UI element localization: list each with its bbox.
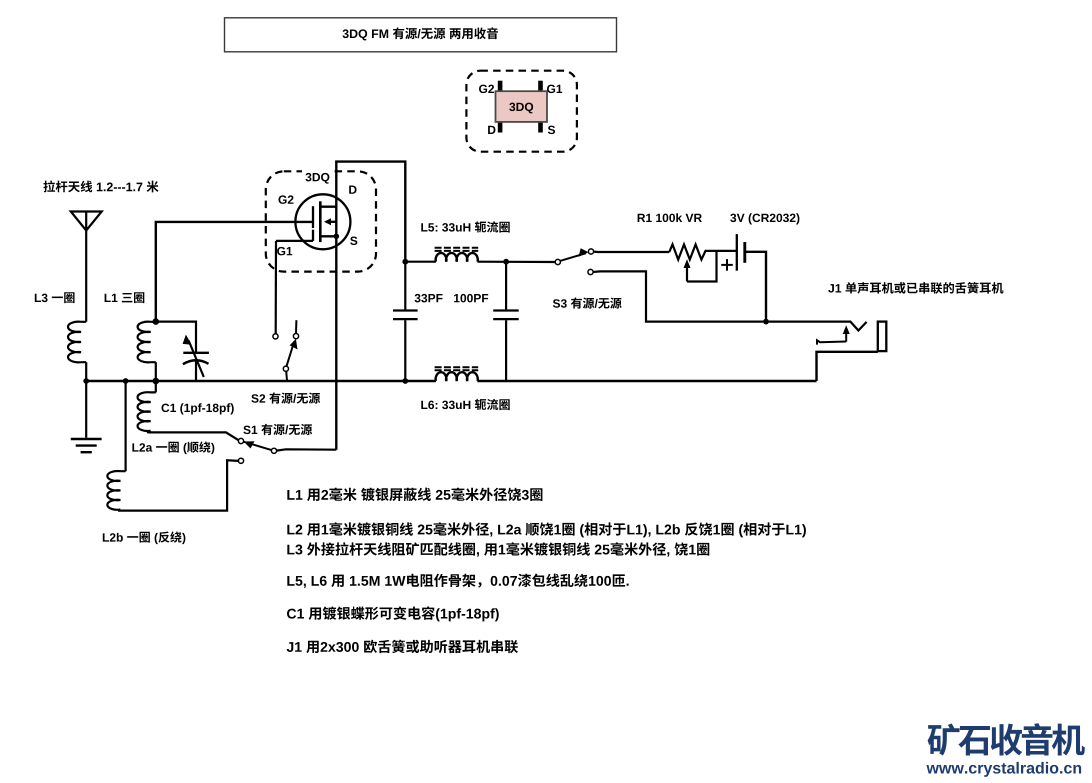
- package pin labels: [479, 85, 562, 134]
- inductor L6: [421, 372, 509, 410]
- 3DQ package body: [496, 81, 548, 133]
- ground: [71, 381, 102, 452]
- wire source down: [335, 236, 337, 449]
- wire S3 lower to battery node: [593, 271, 766, 321]
- title box: [225, 18, 617, 52]
- transistor pin labels: [277, 186, 357, 256]
- wire S3 upper to R1: [594, 251, 670, 254]
- transistor Q1 (dual-gate MOSFET): [295, 194, 350, 249]
- wire L1 bottom to bus: [155, 362, 157, 381]
- site logo: [928, 723, 1085, 755]
- inductor L3: [35, 292, 86, 362]
- junction nodes: [83, 259, 509, 385]
- wire G1: [276, 240, 313, 242]
- inductor L5: [405, 221, 555, 262]
- resistor R1 (potentiometer): [638, 213, 736, 259]
- wire drain to L5 node: [336, 162, 405, 262]
- inductor L2b: [103, 381, 186, 544]
- switch S3: [553, 248, 622, 308]
- variable capacitor C1: [156, 322, 234, 415]
- wire L2b to S1 lower contact: [118, 460, 239, 510]
- wire G2 from L1 top: [156, 222, 313, 322]
- inductor L1: [105, 292, 156, 362]
- capacitor 33PF: [393, 262, 443, 381]
- ground bus wire: [86, 380, 816, 382]
- node battery/jack: [763, 319, 769, 325]
- wire battery to jack node: [745, 252, 766, 322]
- inductor L2a: [132, 381, 214, 454]
- capacitor 100PF: [454, 262, 519, 381]
- R1 wiper arm: [684, 251, 717, 282]
- headphone jack J1: [766, 282, 1003, 381]
- L6 core dashes: [435, 367, 479, 370]
- switch S2: [251, 241, 320, 404]
- transistor Q1 dashed outline: [266, 167, 376, 272]
- antenna: [43, 180, 158, 321]
- wire L2a to S1: [148, 431, 239, 440]
- battery 3V: [721, 213, 799, 270]
- wire S1 to source line: [277, 449, 337, 450]
- wire L3 to bus: [85, 362, 87, 381]
- switch S1: [238, 424, 312, 464]
- L5 core dashes: [435, 248, 479, 251]
- circuit notes: [287, 488, 542, 501]
- 3DQ package outline (dashed): [466, 71, 577, 152]
